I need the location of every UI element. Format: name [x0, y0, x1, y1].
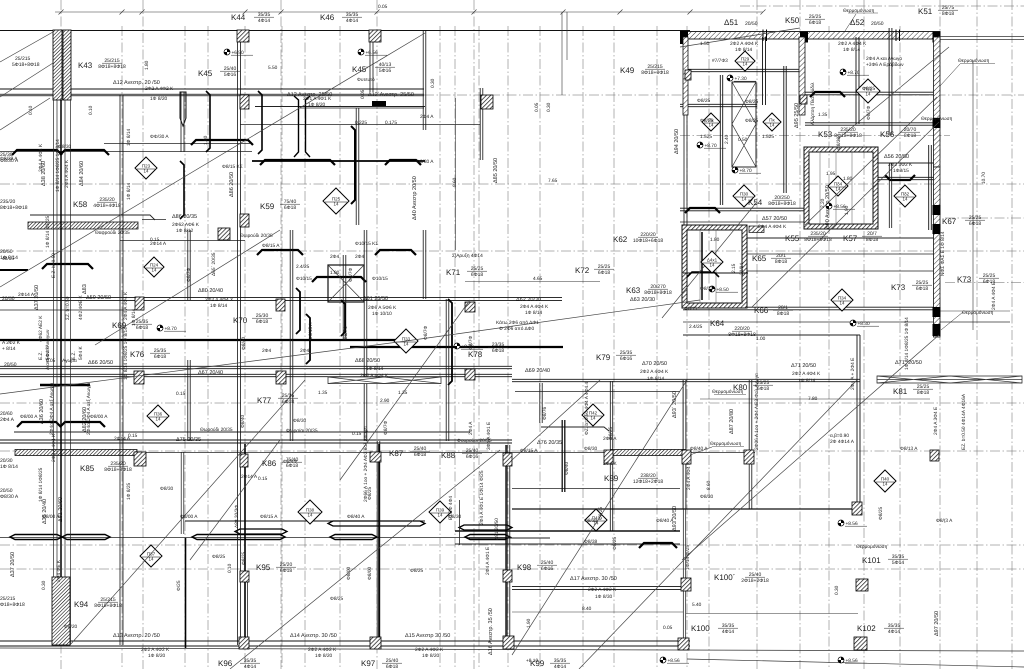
svg-text:8Φ18+8Φ18: 8Φ18+8Φ18 [728, 332, 756, 338]
svg-text:1Φ 8/14: 1Φ 8/14 [210, 303, 227, 309]
svg-text:Φ8/30: Φ8/30 [836, 137, 842, 150]
wall x300 top [294, 96, 299, 157]
svg-text:20/50: 20/50 [4, 362, 17, 368]
svg-text:ΝΦΣ ΦΑΣ Ε 1Φ 8/14: ΝΦΣ ΦΑΣ Ε 1Φ 8/14 [940, 231, 946, 276]
svg-text:0.05: 0.05 [534, 102, 540, 112]
svg-text:0.05: 0.05 [360, 89, 366, 99]
bottom second line right [687, 659, 1024, 667]
wall x612 [609, 381, 611, 531]
svg-text:4Φ2 4ΦΕ Κ: 4Φ2 4ΦΕ Κ [78, 294, 84, 320]
wall x563 [561, 420, 563, 492]
column c2 [465, 302, 475, 312]
svg-text:K73: K73 [957, 275, 972, 284]
svg-text:Δ59 20/50: Δ59 20/50 [86, 295, 111, 301]
vertical rebars mid [296, 288, 300, 334]
svg-text:6Φ16: 6Φ16 [620, 356, 633, 362]
section diagonal [340, 300, 470, 480]
column c21 [930, 450, 939, 461]
pier marker Π24 [144, 257, 164, 277]
beam D61 y298 [0, 297, 562, 299]
svg-text:Φ8/30: Φ8/30 [584, 518, 597, 524]
svg-text:K45: K45 [198, 69, 213, 78]
svg-text:2Φ2 Α 4Φ4 Κ: 2Φ2 Α 4Φ4 Κ [360, 373, 389, 379]
shaft2 inner bar [701, 232, 703, 300]
left wall lines [54, 100, 71, 645]
svg-text:K56: K56 [880, 130, 895, 139]
svg-text:6Φ18: 6Φ18 [969, 221, 982, 227]
svg-text:K79: K79 [596, 353, 611, 362]
svg-text:Δ97 20/50: Δ97 20/50 [934, 611, 940, 636]
beam y240 [120, 240, 245, 242]
svg-text:K72: K72 [575, 266, 590, 275]
svg-text:K81: K81 [893, 387, 908, 396]
svg-text:Φ8/7Φ: Φ8/7Φ [866, 106, 872, 120]
svg-text:K51: K51 [918, 7, 933, 16]
svg-text:6Φ18: 6Φ18 [598, 270, 611, 276]
section diagonal [512, 380, 600, 460]
beam y427 stub [541, 427, 609, 431]
svg-text:1Φ 8/14: 1Φ 8/14 [0, 464, 18, 470]
svg-text:5Φ14: 5Φ14 [892, 560, 905, 566]
svg-text:2Φ4: 2Φ4 [262, 348, 271, 354]
svg-text:1Φ 8/14: 1Φ 8/14 [843, 47, 860, 53]
svg-text:Φ8/(3 Α: Φ8/(3 Α [936, 518, 953, 524]
beam D17 [512, 586, 686, 588]
svg-text:K86: K86 [262, 459, 277, 468]
svg-text:1Φ 8/20: 1Φ 8/20 [422, 653, 439, 659]
svg-text:2Φ4 Α + 2Φ4 Ε: 2Φ4 Α + 2Φ4 Ε [850, 358, 856, 390]
column c7 [240, 454, 248, 467]
svg-text:12Φ18+2Φ18: 12Φ18+2Φ18 [633, 479, 664, 485]
rebar row y537 [10, 535, 62, 540]
svg-text:Δ57 20/50: Δ57 20/50 [762, 216, 787, 222]
svg-text:K76: K76 [130, 350, 145, 359]
svg-text:Δ76 20/35: Δ76 20/35 [537, 440, 562, 446]
svg-text:1.90: 1.90 [526, 618, 532, 628]
svg-text:Δ95 25/50: Δ95 25/50 [794, 103, 800, 128]
shaft2 right stub [749, 226, 764, 233]
svg-text:Φ 2Φ6 από ΔΦ0: Φ 2Φ6 από ΔΦ0 [499, 326, 535, 332]
beam y340 thick [0, 339, 399, 341]
column K99c [503, 636, 514, 649]
svg-text:Αγωβα: Αγωβα [62, 358, 77, 364]
svg-text:2Φ4 Α 4Φ4 Κ: 2Φ4 Α 4Φ4 Κ [51, 433, 57, 462]
svg-text:Δ71 20/50: Δ71 20/50 [791, 363, 816, 369]
dim line 5.40 [686, 613, 858, 615]
svg-text:K62: K62 [613, 235, 628, 244]
svg-text:#7/7Φ3: #7/7Φ3 [712, 58, 728, 64]
svg-text:K102: K102 [857, 624, 876, 633]
svg-text:1.00: 1.00 [756, 336, 766, 342]
svg-text:8Φ18: 8Φ18 [775, 259, 788, 265]
svg-text:1.50: 1.50 [700, 41, 710, 47]
svg-text:0.30: 0.30 [430, 78, 436, 88]
wall x291 [289, 230, 291, 441]
svg-text:4Φ14: 4Φ14 [244, 664, 257, 669]
svg-text:2Φ14 Α: 2Φ14 Α [18, 292, 35, 298]
column c1 [276, 299, 285, 311]
svg-text:Φ10/15: Φ10/15 [296, 276, 312, 282]
beam y521 [185, 520, 425, 522]
top-right edge lines [938, 36, 1024, 38]
svg-text:Φ8/25: Φ8/25 [878, 507, 884, 520]
svg-text:Φ8/15 Α: Φ8/15 Α [262, 243, 280, 249]
svg-text:Φ0/15 Α: Φ0/15 Α [308, 322, 314, 340]
beam y375 [0, 373, 512, 375]
svg-text:4Φ14: 4Φ14 [258, 18, 271, 24]
svg-text:Δ70 20/50: Δ70 20/50 [642, 361, 667, 367]
wall x181 lower [180, 452, 182, 534]
stair box left [328, 265, 364, 302]
beam y509 [512, 508, 860, 510]
svg-text:6Φ18: 6Φ18 [154, 354, 167, 360]
svg-text:8Φ18+8Φ18: 8Φ18+8Φ18 [768, 201, 796, 207]
svg-text:K64: K64 [710, 319, 725, 328]
svg-text:8Φ18+8Φ18: 8Φ18+8Φ18 [0, 205, 28, 211]
beam y106 [255, 106, 425, 108]
beam y161 [252, 160, 425, 162]
pier marker Π38 [298, 500, 322, 524]
right beam y271 [747, 270, 940, 272]
svg-text:Δ40 Ανεστρ 20/50: Δ40 Ανεστρ 20/50 [412, 176, 418, 220]
svg-text:5.40: 5.40 [692, 602, 702, 608]
hatched footing beam left [28, 222, 138, 229]
column c18 [604, 450, 613, 464]
svg-text:Φ8/7Φ: Φ8/7Φ [186, 268, 192, 282]
svg-text:K80: K80 [733, 383, 748, 392]
svg-text:Φ8/40: Φ8/40 [564, 462, 570, 475]
svg-text:20/50: 20/50 [745, 21, 758, 27]
svg-text:K66: K66 [754, 306, 769, 315]
svg-text:8Φ18+8Φ18: 8Φ18+8Φ18 [644, 290, 672, 296]
svg-text:K100: K100 [691, 624, 710, 633]
wall x890 [888, 28, 890, 135]
svg-text:48/15: 48/15 [2, 256, 14, 262]
column c3 [276, 371, 286, 384]
wall x238 [237, 30, 239, 645]
svg-text:K78: K78 [468, 350, 483, 359]
column K96c [239, 637, 249, 649]
svg-text:1Φ 8/14: 1Φ 8/14 [735, 47, 752, 53]
svg-text:2Φ2 Α 4Φ2 Κ: 2Φ2 Α 4Φ2 Κ [588, 587, 617, 593]
svg-text:8Φ18: 8Φ18 [917, 390, 930, 396]
svg-text:K67: K67 [942, 217, 957, 226]
lintel solid [372, 101, 386, 106]
svg-text:6Φ18: 6Φ18 [284, 205, 297, 211]
svg-text:Δ86 20/50: Δ86 20/50 [229, 172, 235, 197]
left wall hatched top [53, 30, 62, 100]
svg-text:4Φ14: 4Φ14 [722, 629, 735, 635]
svg-text:6Φ18: 6Φ18 [414, 452, 427, 458]
top dimension line [55, 10, 766, 15]
svg-text:0.15: 0.15 [176, 391, 186, 397]
svg-text:1.35: 1.35 [818, 112, 828, 118]
svg-text:K101: K101 [862, 556, 881, 565]
svg-text:20/94: 20/94 [739, 263, 745, 275]
svg-text:2Φ2 Α 4Φ4 Κ: 2Φ2 Α 4Φ4 Κ [792, 371, 821, 377]
pier marker Π40 [874, 470, 896, 492]
svg-text:Δ83: Δ83 [82, 284, 88, 294]
svg-text:Φωρσϊαι 20/35: Φωρσϊαι 20/35 [286, 428, 318, 434]
svg-text:K46: K46 [320, 13, 335, 22]
svg-text:1Φ 8/14: 1Φ 8/14 [798, 378, 815, 384]
wall x344 [342, 255, 344, 340]
svg-text:Φ8/00 Α: Φ8/00 Α [180, 514, 198, 520]
right beam y222 [680, 221, 805, 223]
svg-text:Δ85 20/50: Δ85 20/50 [493, 158, 499, 183]
beam y150 [0, 151, 252, 153]
svg-text:Φ8/40 Α: Φ8/40 Α [656, 518, 674, 524]
svg-text:Φ8/7Φ: Φ8/7Φ [468, 336, 474, 350]
section diagonal [512, 380, 687, 655]
pier marker Πδ2 [894, 185, 916, 207]
wall accents thick [244, 444, 246, 648]
section diagonal [579, 380, 857, 669]
wall x857 upper [855, 37, 857, 124]
section diagonal [0, 33, 425, 287]
svg-text:0.15: 0.15 [352, 431, 362, 437]
wall x189 segs [187, 230, 189, 300]
svg-text:1Φ 8/14 1Φ8/25 1Φ 8/14: 1Φ 8/14 1Φ8/25 1Φ 8/14 [904, 317, 910, 370]
dim line 10.70 [972, 60, 974, 330]
svg-text:K71: K71 [446, 268, 461, 277]
wall under K46 [369, 42, 371, 92]
svg-text:Φ8/15 Α: Φ8/15 Α [260, 514, 278, 520]
svg-text:2Φ62 ΑΦ6 Κ: 2Φ62 ΑΦ6 Κ [172, 222, 200, 228]
svg-text:10Φ18+6Φ18: 10Φ18+6Φ18 [633, 238, 664, 244]
beam y347 [350, 346, 563, 348]
svg-text:Δ17 Ανεστρ. 30 /50: Δ17 Ανεστρ. 30 /50 [570, 576, 617, 582]
svg-text:2Φ4 Α 4Φ4 Κ: 2Φ4 Α 4Φ4 Κ [38, 143, 44, 172]
svg-text:Δ75 20/35: Δ75 20/35 [176, 437, 201, 443]
beam y141 stub [104, 143, 250, 145]
svg-text:6Φ16: 6Φ16 [466, 454, 479, 460]
svg-text:Φ8/25: Φ8/25 [410, 568, 423, 574]
section diagonal [0, 341, 406, 394]
svg-text:α,β=0.90: α,β=0.90 [830, 433, 849, 439]
svg-text:Φ8/30: Φ8/30 [160, 486, 173, 492]
svg-text:1Φ 8/14: 1Φ 8/14 [366, 366, 383, 372]
svg-text:1Φ 8/14: 1Φ 8/14 [647, 376, 664, 382]
column c24 [503, 453, 512, 466]
pier marker Π30 [733, 185, 755, 207]
svg-text:2Φ2 Α 4Φ4 Κ: 2Φ2 Α 4Φ4 Κ [838, 41, 867, 47]
beam y537 line [0, 537, 512, 539]
svg-text:Φ8/30: Φ8/30 [584, 446, 597, 452]
pier marker Π37 [140, 545, 162, 567]
column c8 [370, 452, 381, 462]
shaft2 inner beam [683, 272, 748, 274]
column c12 [685, 70, 691, 80]
svg-text:Δ63 20/30: Δ63 20/30 [630, 297, 655, 303]
column K58c [240, 95, 249, 109]
wall x685 bottom [682, 380, 684, 509]
column K98c [503, 570, 512, 582]
section diagonal [95, 230, 280, 345]
svg-text:ΣΖ. b=0.50: ΣΖ. b=0.50 [65, 296, 71, 320]
svg-text:2Φ1 Α 4Φ1 Κ: 2Φ1 Α 4Φ1 Κ [303, 96, 332, 102]
svg-text:1.90: 1.90 [844, 205, 850, 215]
svg-text:Φ8/40: Φ8/40 [241, 337, 247, 350]
svg-text:0.30: 0.30 [546, 102, 552, 112]
svg-text:2Φ06 Α 1οο + 2Φ4 ΑιΕ3 Φαλ Ανωγ: 2Φ06 Α 1οο + 2Φ4 ΑιΕ3 Φαλ Ανωγει [754, 373, 760, 450]
wall x857 lower [856, 335, 858, 509]
svg-text:Δ87 20/80: Δ87 20/80 [729, 409, 735, 434]
svg-text:1.80: 1.80 [843, 176, 853, 182]
right beam y163 [876, 162, 940, 164]
svg-text:+3Φ6 Α Εράβδων: +3Φ6 Α Εράβδων [866, 62, 904, 68]
svg-text:20/50: 20/50 [871, 21, 884, 27]
svg-text:8Φ18: 8Φ18 [904, 133, 917, 139]
insulation bar right [877, 376, 1022, 383]
column K46 [369, 30, 381, 42]
svg-text:2Φ 4Φ14 Α: 2Φ 4Φ14 Α [830, 439, 855, 445]
svg-text:K88: K88 [441, 451, 456, 460]
svg-text:Δ65΄ 20/35: Δ65΄ 20/35 [211, 252, 217, 276]
svg-text:5Φ18+8Φ18: 5Φ18+8Φ18 [12, 62, 40, 68]
column c13 [800, 95, 807, 104]
right beam y70 [683, 68, 803, 70]
svg-text:1Φ 8/20: 1Φ 8/20 [308, 102, 325, 108]
svg-text:Φ0/30 Α: Φ0/30 Α [416, 159, 434, 165]
svg-text:Δ67 20/40: Δ67 20/40 [198, 370, 223, 376]
svg-text:Φ8/25: Φ8/25 [330, 596, 343, 602]
svg-text:Φ8/7Φ: Φ8/7Φ [383, 421, 389, 435]
dim line 8.60 [455, 98, 457, 250]
svg-text:Φ8/00: Φ8/00 [367, 567, 373, 580]
svg-text:Θερμομόνωση: Θερμομόνωση [856, 544, 888, 550]
column K100c [678, 638, 689, 650]
wall x764 [762, 37, 764, 105]
svg-text:6Φ18: 6Φ18 [471, 272, 484, 278]
column K102c [854, 637, 867, 650]
stair box right [732, 82, 756, 167]
svg-text:K98: K98 [517, 563, 532, 572]
svg-text:1Φ 8/20: 1Φ 8/20 [315, 653, 332, 659]
elevator shaft 1 [804, 147, 878, 229]
column K100d [681, 578, 691, 591]
left wall hatched bottom [52, 577, 70, 645]
section diagonal [0, 63, 53, 97]
svg-text:2Φ4 Α 4Φ1 Ε: 2Φ4 Α 4Φ1 Ε [485, 547, 491, 575]
svg-text:Φ8/00 Α: Φ8/00 Α [20, 414, 38, 420]
svg-text:5Φ16: 5Φ16 [379, 68, 392, 74]
section diagonal [682, 335, 939, 560]
svg-text:1.525: 1.525 [762, 134, 774, 140]
svg-text:Αλάρτοη Πλατωύδιλ: Αλάρτοη Πλατωύδιλ [810, 82, 816, 125]
wall block right [933, 32, 941, 43]
svg-text:Δ62 20/30: Δ62 20/30 [516, 297, 541, 303]
svg-text:Θαιρούδι 20/35: Θαιρούδι 20/35 [240, 233, 273, 239]
svg-text:Δ84 20/60: Δ84 20/60 [79, 161, 85, 186]
svg-text:K54: K54 [748, 198, 763, 207]
column c4 [465, 369, 475, 380]
svg-text:1.35: 1.35 [398, 390, 408, 396]
svg-text:1Φ 8/14: 1Φ 8/14 [131, 309, 137, 326]
footing band y385 [40, 384, 90, 387]
svg-text:8.60: 8.60 [452, 177, 458, 187]
svg-text:5Φ16: 5Φ16 [224, 72, 237, 78]
svg-text:Φ18+8Φ18: Φ18+8Φ18 [0, 602, 25, 608]
svg-text:2Φ2 Δ 4Φ4 Χ: 2Φ2 Δ 4Φ4 Χ [205, 297, 234, 303]
pentagon beam symbol [180, 92, 186, 126]
svg-text:0.30: 0.30 [834, 585, 840, 595]
svg-text:0.05: 0.05 [378, 4, 388, 10]
svg-text:Δ68 20/50: Δ68 20/50 [355, 358, 380, 364]
svg-text:Δ93΄ 20/50: Δ93΄ 20/50 [671, 391, 678, 418]
right beam y124 [805, 122, 940, 124]
pier marker Π36 [147, 405, 169, 427]
svg-text:2Φ4 Α 3Φ4 Ε: 2Φ4 Α 3Φ4 Ε [933, 407, 939, 435]
pier marker Π41 [585, 509, 607, 531]
svg-text:Φ10/15: Φ10/15 [372, 276, 388, 282]
svg-text:K89: K89 [604, 474, 619, 483]
svg-text:6Φ18: 6Φ18 [809, 20, 822, 26]
section diagonal [230, 450, 500, 669]
pier marker Π25 [323, 188, 349, 214]
svg-text:Φ8/15 ΚΣ: Φ8/15 ΚΣ [222, 164, 243, 170]
svg-text:K45': K45' [352, 65, 368, 74]
svg-text:2.20: 2.20 [820, 198, 826, 208]
beam y380 right wing [512, 378, 860, 380]
svg-text:1.80: 1.80 [144, 60, 150, 70]
svg-text:K49: K49 [620, 66, 635, 75]
svg-text:2Φ4 Α 4Φ1 Ε 1Φ/14 Φ/25: 2Φ4 Α 4Φ1 Ε 1Φ/14 Φ/25 [479, 470, 485, 525]
column c6 [134, 452, 146, 466]
svg-text:K77: K77 [257, 396, 272, 405]
svg-text:8.60: 8.60 [706, 480, 712, 490]
svg-text:4Φ62 ΑΕ2 Κ: 4Φ62 ΑΕ2 Κ [38, 315, 44, 342]
svg-text:5.50: 5.50 [268, 65, 278, 71]
svg-text:2Φ4: 2Φ4 [330, 254, 339, 260]
svg-text:Φ8/25: Φ8/25 [367, 487, 373, 500]
svg-text:2Φ2 Α 4Φ2 Κ: 2Φ2 Α 4Φ2 Κ [415, 647, 444, 653]
svg-text:8Φ18+8Φ18: 8Φ18+8Φ18 [94, 603, 122, 609]
pier marker Π39 [429, 501, 451, 523]
svg-text:K65: K65 [752, 254, 767, 263]
svg-text:Θαφρούδι 20/35: Θαφρούδι 20/35 [95, 230, 130, 236]
svg-text:1Φ 8/14: 1Φ 8/14 [126, 129, 132, 146]
column c5 [218, 228, 230, 240]
svg-text:2Φ2 Α 4Φ2 Κ: 2Φ2 Α 4Φ2 Κ [145, 86, 174, 92]
column c-135a [135, 297, 144, 310]
svg-text:K100΄: K100΄ [714, 573, 735, 582]
svg-text:1Φ 8/14 ΦΕ/25: 1Φ 8/14 ΦΕ/25 [45, 215, 51, 248]
wall x357 [355, 108, 357, 225]
svg-text:K50: K50 [785, 16, 800, 25]
svg-text:2Φ4 ΦΕ Κ: 2Φ4 ΦΕ Κ [56, 559, 62, 582]
svg-text:1Φ 8/20: 1Φ 8/20 [150, 96, 167, 102]
rebar row y422 left [17, 422, 61, 427]
pier marker Π29 [735, 51, 755, 71]
column c20 [744, 450, 754, 464]
svg-text:7.65: 7.65 [548, 178, 558, 184]
wall x424 [422, 30, 424, 130]
beam y108 [300, 107, 424, 109]
svg-text:5Φ4 Κ: 5Φ4 Κ [78, 346, 84, 360]
svg-text:Φ8/25: Φ8/25 [612, 537, 618, 550]
wall block left [680, 31, 688, 44]
svg-text:2Φ4 Κ: 2Φ4 Κ [603, 461, 617, 467]
svg-text:Φ8/15: Φ8/15 [700, 286, 713, 292]
right beam y105 [680, 103, 757, 105]
svg-text:Θερμομόνωση: Θερμομόνωση [958, 58, 990, 64]
svg-text:1.35: 1.35 [318, 390, 328, 396]
svg-text:Φ8/40 Α: Φ8/40 Α [347, 514, 365, 520]
top-right perimeter wall hatched [683, 32, 940, 40]
column c14 [852, 502, 862, 515]
svg-text:2Φ4 Α 4Φ4 Κ: 2Φ4 Α 4Φ4 Κ [520, 304, 549, 310]
